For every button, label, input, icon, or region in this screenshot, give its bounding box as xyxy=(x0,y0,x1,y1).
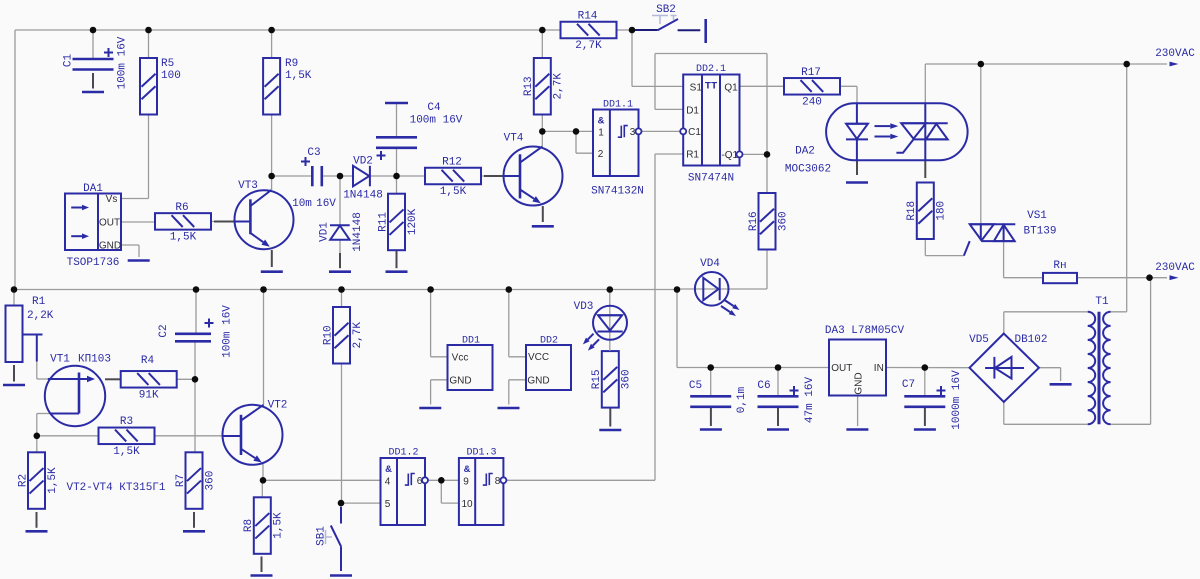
svg-text:VD2: VD2 xyxy=(353,156,373,168)
svg-text:GND: GND xyxy=(854,372,865,394)
svg-text:2: 2 xyxy=(598,149,604,160)
svg-text:230VAC: 230VAC xyxy=(1155,262,1195,274)
svg-text:C1: C1 xyxy=(62,54,74,68)
svg-text:16V: 16V xyxy=(316,198,336,210)
svg-text:TSOP1736: TSOP1736 xyxy=(67,257,120,269)
svg-text:SN7474N: SN7474N xyxy=(688,173,734,185)
svg-text:SN74132N: SN74132N xyxy=(591,186,644,198)
svg-text:4: 4 xyxy=(385,476,391,487)
svg-text:VD5: VD5 xyxy=(969,334,989,346)
svg-text:VD4: VD4 xyxy=(700,258,720,270)
svg-text:VT2-VT4 КТ315Г1: VT2-VT4 КТ315Г1 xyxy=(66,482,165,494)
svg-text:DD1.1: DD1.1 xyxy=(603,100,633,111)
svg-text:R10: R10 xyxy=(322,325,334,345)
svg-text:C7: C7 xyxy=(902,379,915,391)
svg-text:R2: R2 xyxy=(17,474,29,487)
svg-text:9: 9 xyxy=(463,476,469,487)
svg-text:DD2: DD2 xyxy=(540,336,558,347)
svg-text:DD1.2: DD1.2 xyxy=(388,448,418,459)
svg-text:GND: GND xyxy=(527,375,549,386)
svg-text:DD2.1: DD2.1 xyxy=(696,64,726,75)
svg-text:DD1: DD1 xyxy=(462,336,480,347)
svg-text:360: 360 xyxy=(621,369,633,389)
svg-text:R11: R11 xyxy=(377,212,389,232)
svg-text:OUT: OUT xyxy=(99,218,120,229)
svg-text:100m 16V: 100m 16V xyxy=(116,36,128,89)
svg-text:C3: C3 xyxy=(307,147,320,159)
svg-text:10: 10 xyxy=(461,499,473,510)
svg-text:T1: T1 xyxy=(1095,296,1109,308)
svg-text:Vs: Vs xyxy=(106,194,118,205)
svg-text:R18: R18 xyxy=(906,201,918,221)
svg-text:R5: R5 xyxy=(161,58,174,70)
svg-text:DA3 L78M05CV: DA3 L78M05CV xyxy=(825,325,905,337)
svg-text:КП103: КП103 xyxy=(78,354,111,366)
svg-text:2,2K: 2,2K xyxy=(27,310,54,322)
svg-text:180: 180 xyxy=(936,201,948,221)
svg-text:GND: GND xyxy=(99,241,121,252)
svg-text:C1: C1 xyxy=(688,127,701,138)
svg-text:1,5K: 1,5K xyxy=(285,70,312,82)
svg-text:R4: R4 xyxy=(141,355,155,367)
svg-text:VT4: VT4 xyxy=(504,133,524,145)
svg-text:VT1: VT1 xyxy=(50,354,70,366)
svg-text:R16: R16 xyxy=(748,211,760,231)
svg-text:2,7K: 2,7K xyxy=(352,322,364,349)
svg-text:C2: C2 xyxy=(158,324,170,337)
svg-text:GND: GND xyxy=(449,375,471,386)
svg-text:DA2: DA2 xyxy=(795,146,815,158)
svg-text:R1: R1 xyxy=(686,150,699,161)
svg-text:1: 1 xyxy=(598,128,604,139)
svg-text:1,5K: 1,5K xyxy=(273,512,285,539)
svg-text:R7: R7 xyxy=(175,474,187,487)
svg-text:230VAC: 230VAC xyxy=(1155,48,1195,60)
svg-text:VD1: VD1 xyxy=(318,222,330,242)
svg-text:MOC3062: MOC3062 xyxy=(785,164,831,176)
svg-text:91K: 91K xyxy=(139,389,159,401)
svg-text:1,5K: 1,5K xyxy=(113,446,140,458)
svg-text:VD3: VD3 xyxy=(574,301,594,313)
svg-text:VT3: VT3 xyxy=(238,180,258,192)
svg-text:R3: R3 xyxy=(120,416,133,428)
svg-text:&: & xyxy=(385,464,392,476)
svg-text:&: & xyxy=(598,116,605,128)
svg-text:R6: R6 xyxy=(175,202,188,214)
svg-text:TT: TT xyxy=(705,81,718,93)
svg-text:360: 360 xyxy=(204,471,216,491)
svg-text:SB2: SB2 xyxy=(656,4,676,16)
svg-text:240: 240 xyxy=(802,96,822,108)
svg-text:C6: C6 xyxy=(757,380,770,392)
svg-text:S1: S1 xyxy=(690,82,703,93)
svg-text:1N4148: 1N4148 xyxy=(343,190,383,202)
svg-text:R15: R15 xyxy=(591,369,603,389)
svg-text:1N4148: 1N4148 xyxy=(352,212,364,252)
svg-text:1000m 16V: 1000m 16V xyxy=(951,370,963,430)
svg-text:5: 5 xyxy=(385,499,391,510)
svg-text:VS1: VS1 xyxy=(1027,210,1047,222)
svg-text:R14: R14 xyxy=(578,11,598,23)
svg-text:100m 16V: 100m 16V xyxy=(410,115,463,127)
svg-text:OUT: OUT xyxy=(831,363,852,374)
svg-text:1,5K: 1,5K xyxy=(440,186,467,198)
svg-text:R9: R9 xyxy=(285,58,298,70)
svg-text:DD1.3: DD1.3 xyxy=(466,448,496,459)
svg-text:1,5K: 1,5K xyxy=(47,467,59,494)
svg-text:BT139: BT139 xyxy=(1023,226,1056,238)
svg-text:R17: R17 xyxy=(801,67,821,79)
svg-text:IN: IN xyxy=(874,363,884,374)
svg-text:C5: C5 xyxy=(689,380,702,392)
svg-text:2,7K: 2,7K xyxy=(553,73,565,100)
svg-text:R12: R12 xyxy=(442,157,462,169)
svg-text:1,5K: 1,5K xyxy=(170,231,197,243)
svg-text:Rн: Rн xyxy=(1053,260,1066,272)
svg-text:DA1: DA1 xyxy=(83,183,103,195)
svg-text:R13: R13 xyxy=(523,76,535,96)
svg-text:120K: 120K xyxy=(407,208,419,235)
svg-text:Q1: Q1 xyxy=(724,82,738,93)
svg-text:R8: R8 xyxy=(243,519,255,532)
svg-text:Vcc: Vcc xyxy=(452,353,469,364)
svg-text:C4: C4 xyxy=(427,102,441,114)
svg-text:DB102: DB102 xyxy=(1014,334,1047,346)
svg-text:10m: 10m xyxy=(292,198,312,210)
svg-text:100: 100 xyxy=(161,70,181,82)
svg-text:100m 16V: 100m 16V xyxy=(221,305,233,358)
svg-text:&: & xyxy=(464,464,471,476)
svg-text:VT2: VT2 xyxy=(268,400,288,412)
svg-text:47m 16V: 47m 16V xyxy=(804,377,816,424)
svg-text:0,1m: 0,1m xyxy=(736,386,748,413)
svg-text:2,7K: 2,7K xyxy=(575,40,602,52)
svg-text:VCC: VCC xyxy=(528,352,549,363)
svg-text:D1: D1 xyxy=(686,105,699,116)
svg-text:360: 360 xyxy=(777,211,789,231)
svg-text:R1: R1 xyxy=(32,296,46,308)
